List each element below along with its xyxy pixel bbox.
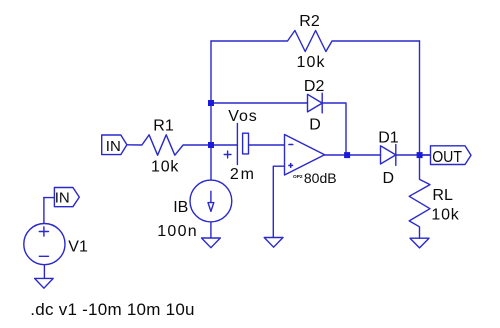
- svg-text:80dB: 80dB: [304, 170, 337, 186]
- svg-text:D1: D1: [378, 129, 399, 146]
- svg-text:2m: 2m: [230, 166, 256, 183]
- svg-text:10k: 10k: [297, 54, 326, 71]
- svg-text:R1: R1: [153, 117, 174, 134]
- svg-text:100n: 100n: [157, 223, 198, 240]
- svg-text:10k: 10k: [151, 159, 179, 176]
- svg-text:V1: V1: [68, 239, 88, 256]
- svg-text:D: D: [383, 170, 395, 187]
- svg-text:IB: IB: [173, 199, 188, 216]
- svg-text:Vos: Vos: [228, 108, 257, 125]
- svg-text:.dc v1 -10m 10m 10u: .dc v1 -10m 10m 10u: [30, 300, 194, 319]
- svg-text:IN: IN: [106, 138, 121, 155]
- svg-text:OUT: OUT: [432, 149, 462, 166]
- svg-text:IN: IN: [55, 190, 70, 207]
- svg-text:RL: RL: [432, 187, 453, 204]
- svg-text:R2: R2: [299, 13, 320, 30]
- svg-text:D: D: [309, 116, 321, 133]
- svg-text:OP2: OP2: [293, 174, 303, 180]
- svg-text:D2: D2: [304, 78, 325, 95]
- svg-text:10k: 10k: [431, 206, 459, 223]
